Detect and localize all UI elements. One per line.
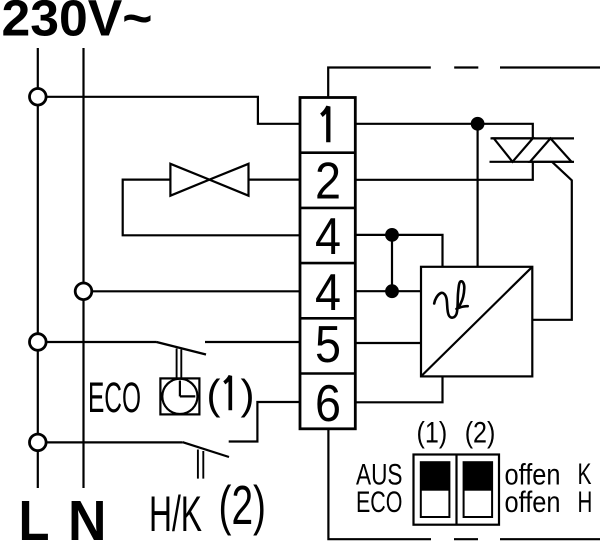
svg-text:2: 2	[315, 153, 341, 211]
wire L to ECO switch	[38, 341, 157, 343]
wire L line vertical	[37, 48, 39, 488]
svg-text:5: 5	[315, 316, 341, 374]
wire junction 4a to 4b	[391, 235, 393, 291]
pin number 6	[315, 375, 341, 433]
DIP switch 2 slider	[464, 462, 493, 517]
svg-text:230V~: 230V~	[2, 0, 153, 47]
DIP switch 1 slider	[421, 462, 450, 517]
wire L to H/K switch	[38, 441, 183, 443]
pin number 1	[321, 107, 328, 143]
node circle on N (terminal 4 feed)	[75, 283, 92, 300]
svg-text:(2): (2)	[465, 417, 496, 450]
switch blade ECO (1)	[157, 342, 207, 355]
linkage ECO switch to clock	[177, 349, 182, 379]
wire terminal 6 to controller bottom	[355, 376, 442, 402]
enclosure dash-dot top	[454, 66, 600, 68]
node circle on L (terminal 1 feed)	[30, 89, 47, 106]
svg-text:4: 4	[315, 264, 341, 322]
svg-text:offen: offen	[505, 486, 561, 519]
label (2) switch	[219, 474, 267, 536]
label N	[68, 489, 107, 547]
switch blade H/K (2)	[183, 442, 229, 457]
triac	[490, 138, 575, 161]
wire triac gate to controller	[532, 162, 572, 320]
wire enclosure entry top	[328, 68, 431, 98]
linkage H/K switch	[198, 450, 203, 479]
label 230V~ supply	[2, 0, 153, 47]
svg-text:4: 4	[315, 208, 341, 266]
wire ECO switch to terminal 5	[205, 341, 300, 343]
valve	[170, 164, 248, 196]
label AUS	[356, 459, 403, 492]
wire terminal 1 to triac	[355, 124, 533, 139]
wire L to terminal 1	[38, 97, 300, 124]
wire terminal 5 to controller left	[355, 342, 421, 344]
svg-text:(1): (1)	[417, 417, 448, 450]
wire terminal 2 to triac	[355, 162, 533, 180]
label offen H	[505, 486, 593, 519]
label H/K	[149, 486, 202, 542]
junction dot terminal 4a	[385, 228, 399, 242]
DIP switch block outline	[414, 455, 500, 525]
svg-text:H: H	[578, 486, 593, 519]
wire N line vertical	[82, 48, 84, 488]
svg-text:(: (	[207, 371, 221, 418]
label offen K	[505, 458, 592, 492]
label L	[19, 489, 50, 547]
pin number 5	[315, 316, 341, 374]
terminal cell dividers	[300, 153, 355, 374]
label (1) clock	[207, 371, 255, 418]
node circle on L (ECO switch feed)	[30, 334, 47, 351]
theta symbol	[434, 281, 468, 317]
label (1) DIP	[417, 417, 448, 450]
svg-text:ECO: ECO	[88, 374, 141, 422]
DIP switch divider	[455, 455, 457, 525]
label (2) DIP	[465, 417, 496, 450]
label ECO (DIP)	[356, 486, 403, 519]
svg-text:ECO: ECO	[356, 486, 403, 519]
pin number 4	[315, 264, 341, 322]
svg-text:N: N	[68, 489, 107, 547]
pin number 4	[315, 208, 341, 266]
junction dot terminal 1 wire	[471, 117, 485, 131]
clock timer symbol	[160, 378, 199, 414]
svg-text:(2): (2)	[219, 474, 267, 536]
wire terminal 4b to controller left	[355, 290, 421, 292]
svg-text:H/K: H/K	[149, 486, 202, 542]
wire junction to controller top	[477, 124, 479, 267]
node circle on L (H/K switch feed)	[30, 434, 47, 451]
svg-text:L: L	[19, 489, 50, 547]
junction dot terminal 4b	[385, 284, 399, 298]
terminal block outline	[300, 98, 355, 429]
wire H/K switch to terminal 6	[229, 402, 300, 442]
wire terminal 4a to controller top	[355, 235, 442, 267]
temperature controller box	[421, 267, 532, 377]
svg-text:6: 6	[315, 375, 341, 433]
wire valve to terminal 4a	[123, 180, 300, 236]
wire N to terminal 4b	[84, 290, 301, 292]
enclosure dash-dot bottom	[454, 538, 600, 540]
label ECO (clock)	[88, 374, 141, 422]
svg-text:): )	[241, 371, 255, 418]
pin number 2	[315, 153, 341, 211]
wire enclosure exit bottom	[328, 429, 431, 539]
wire terminal 2 to valve	[249, 179, 301, 181]
